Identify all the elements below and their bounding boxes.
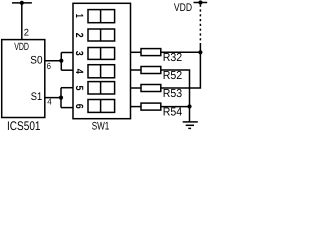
- svg-text:R52: R52: [163, 69, 182, 82]
- resistor R53 body: [141, 85, 161, 92]
- svg-text:S0: S0: [30, 55, 42, 67]
- switch SW1 cell row1: [88, 10, 115, 23]
- switch SW1 cell row2: [88, 29, 115, 41]
- wire R54 to gnd node: [161, 106, 190, 108]
- svg-text:2: 2: [73, 33, 85, 38]
- wire S0 vertical branch: [60, 53, 62, 71]
- node R54/ground junction: [187, 104, 191, 108]
- svg-text:ICS501: ICS501: [7, 119, 41, 131]
- switch SW1 box: [73, 3, 131, 118]
- svg-text:6: 6: [73, 104, 85, 109]
- node S0 junction: [59, 59, 63, 63]
- wire S0 to row4: [61, 69, 73, 71]
- wire row4 to R52 lead: [131, 69, 142, 71]
- wire gnd stub: [189, 107, 191, 122]
- wire top-left horizontal: [12, 2, 32, 4]
- wire S1 to row6: [61, 107, 73, 109]
- wire row6 to R54 lead: [131, 106, 142, 108]
- wire bus solid upper: [199, 45, 201, 52]
- wire row3 to R32 lead: [131, 51, 142, 53]
- svg-text:VDD: VDD: [14, 41, 29, 53]
- IC U1 ICS501 box: [2, 40, 45, 118]
- resistor R52 body: [141, 67, 161, 74]
- svg-text:SW1: SW1: [92, 120, 110, 131]
- node bus/R32 junction: [198, 50, 202, 54]
- svg-text:S1: S1: [31, 91, 42, 103]
- svg-text:VDD: VDD: [174, 2, 192, 14]
- svg-text:4: 4: [47, 97, 52, 107]
- resistor R54 body: [141, 103, 161, 110]
- switch SW1 cell row5: [88, 82, 115, 94]
- wire S1 vertical branch: [60, 88, 62, 108]
- wire pin2 vertical: [21, 3, 23, 40]
- switch SW1 cell row4: [88, 65, 115, 78]
- svg-text:1: 1: [73, 14, 85, 18]
- wire S1 to row5: [61, 87, 73, 89]
- wire R52 right to corner: [161, 70, 190, 107]
- svg-text:3: 3: [73, 51, 85, 56]
- wire R32 to bus: [161, 51, 201, 53]
- wire row5 to R53 lead: [131, 87, 142, 89]
- node S1 junction: [59, 96, 63, 100]
- wire R53 to bus corner: [161, 52, 201, 88]
- wire S0 to row3: [61, 52, 73, 54]
- switch SW1 cell row6: [88, 100, 115, 113]
- svg-text:6: 6: [47, 61, 51, 71]
- wire VDD stub top-right: [194, 2, 208, 4]
- resistor R32 body: [141, 49, 161, 56]
- svg-text:2: 2: [24, 28, 29, 39]
- svg-text:R32: R32: [163, 51, 182, 64]
- wire pin4 S1: [45, 97, 61, 99]
- svg-text:5: 5: [73, 86, 85, 91]
- svg-text:R54: R54: [163, 106, 183, 119]
- wire VDD dashed: [199, 5, 201, 45]
- wire pin6 S0: [45, 60, 62, 62]
- node VDD junction: [198, 0, 202, 4]
- svg-text:4: 4: [73, 69, 85, 74]
- node junction top-left: [20, 1, 24, 5]
- switch SW1 cell row3: [88, 48, 115, 60]
- svg-text:R53: R53: [163, 87, 182, 100]
- ground: [183, 121, 198, 123]
